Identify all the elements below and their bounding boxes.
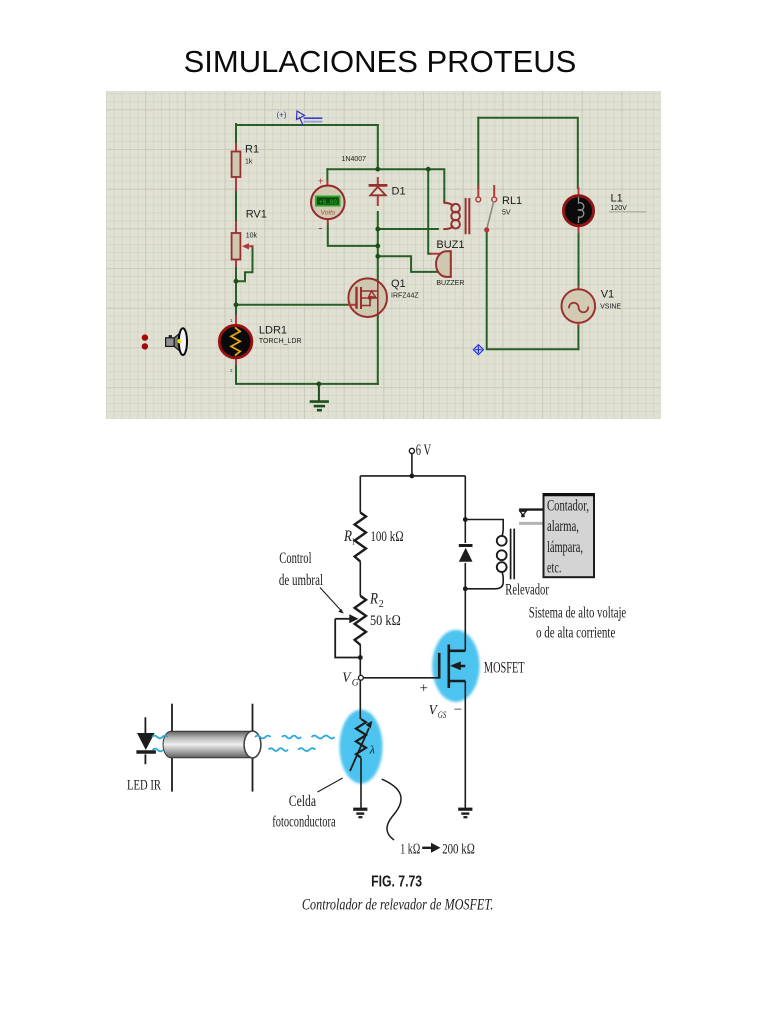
- svg-text:Contador,: Contador,: [547, 497, 589, 514]
- diode clamp: [459, 520, 473, 589]
- svg-text:etc.: etc.: [547, 560, 561, 577]
- svg-text:120V: 120V: [611, 205, 628, 212]
- resistor R1: [232, 144, 241, 190]
- highlight ellipse MOSFET: [432, 630, 479, 702]
- relay switch RL1: [476, 186, 497, 232]
- wire RL1 common to V1 bottom rail: [487, 230, 579, 349]
- LDR1 photoresistor: [219, 316, 252, 373]
- node wiper junction: [358, 655, 363, 660]
- svg-text:2: 2: [379, 599, 384, 610]
- light waves: [152, 736, 335, 752]
- ground MOSFET: [458, 809, 472, 817]
- resistor R1 zigzag: [355, 513, 366, 562]
- svg-text:1k: 1k: [245, 159, 253, 166]
- svg-text:Q1: Q1: [391, 278, 406, 290]
- wire voltmeter bottom lead: [328, 224, 378, 246]
- load box contador alarma lampara etc: [544, 494, 595, 577]
- wire relay coil top feed: [428, 169, 444, 201]
- svg-text:G: G: [352, 679, 359, 689]
- svg-text:o de alta corriente: o de alta corriente: [536, 625, 615, 642]
- svg-text:D1: D1: [392, 186, 406, 198]
- svg-text:V: V: [342, 670, 352, 686]
- wire between R1 and R2: [359, 562, 361, 596]
- wire D1 vertical below: [377, 212, 379, 256]
- potentiometer wiper arrow: [335, 618, 350, 620]
- svg-text:LDR1: LDR1: [259, 325, 287, 337]
- wire photocell to ground: [360, 758, 362, 808]
- svg-text:−: −: [454, 702, 462, 718]
- wire LDR to bottom rail: [236, 364, 378, 384]
- wire relay coil bottom rail: [378, 228, 438, 230]
- svg-text:VSINE: VSINE: [600, 303, 621, 310]
- photocell arrow: [350, 728, 369, 771]
- potentiometer RV1: [232, 222, 253, 266]
- wire left branch down to R1: [235, 124, 237, 144]
- svg-text:RV1: RV1: [246, 209, 267, 221]
- svg-text:IRFZ44Z: IRFZ44Z: [391, 292, 419, 299]
- svg-text:FIG. 7.73: FIG. 7.73: [371, 873, 422, 890]
- annotation speaker icon: [166, 328, 187, 355]
- wire Q1 drain up: [377, 256, 379, 281]
- annotation red dots: [142, 334, 148, 340]
- wire L1 to V1: [578, 230, 580, 287]
- wire relay to MOSFET drain: [464, 589, 466, 651]
- diode D1: [370, 178, 386, 205]
- svg-text:-: -: [318, 220, 322, 235]
- node supply junction: [410, 474, 415, 479]
- leader line celda: [318, 778, 343, 792]
- ground photocell: [353, 809, 367, 817]
- svg-text:LED IR: LED IR: [127, 777, 161, 793]
- svg-text:+: +: [420, 680, 428, 696]
- svg-text:V1: V1: [601, 288, 614, 300]
- arrow range: [422, 847, 432, 849]
- contact switch to box: [519, 508, 543, 510]
- svg-text:fotoconductora: fotoconductora: [272, 814, 335, 831]
- svg-text:alarma,: alarma,: [547, 518, 579, 535]
- svg-text:lámpara,: lámpara,: [547, 539, 583, 556]
- wire gate: [363, 677, 439, 679]
- svg-text:GS: GS: [438, 711, 447, 721]
- mosfet Q1: [348, 278, 387, 317]
- svg-text:MOSFET: MOSFET: [484, 659, 525, 676]
- svg-text:1: 1: [352, 537, 355, 547]
- svg-text:+: +: [318, 176, 324, 188]
- wire top rail: [360, 475, 465, 477]
- page title: [0, 46, 764, 77]
- lamp L1: [564, 188, 594, 232]
- svg-text:(+): (+): [277, 111, 287, 120]
- photocell zigzag: [356, 719, 366, 758]
- wire gate from RV1 to Q1: [236, 304, 349, 306]
- wire Q1 source down: [377, 314, 379, 384]
- buzzer BUZ1: [431, 251, 451, 277]
- wire RL1 left vertical: [477, 118, 479, 188]
- aperture bar left: [171, 704, 173, 792]
- voltage probe marker: [277, 111, 322, 126]
- junction dots: [234, 167, 431, 386]
- tube cylinder: [163, 731, 261, 758]
- origin marker diamond: [473, 345, 483, 355]
- svg-text:50 kΩ: 50 kΩ: [370, 613, 401, 629]
- wire RV1 to LDR: [235, 266, 237, 316]
- squiggle pointer to resistance range: [382, 779, 401, 840]
- node relay top junction: [463, 517, 468, 522]
- relay coil: [465, 520, 514, 589]
- svg-text:200 kΩ: 200 kΩ: [442, 842, 475, 858]
- svg-text:BUZ1: BUZ1: [436, 239, 464, 251]
- wire buzzer top feed: [428, 169, 431, 254]
- wire R1 to RV1: [235, 188, 237, 222]
- svg-text:R: R: [369, 591, 378, 608]
- wire top-left rail: [236, 124, 378, 126]
- wire right branch upper: [464, 476, 466, 520]
- svg-text:Control: Control: [279, 550, 311, 567]
- leader arrow to wiper: [320, 588, 342, 612]
- svg-text:1 kΩ: 1 kΩ: [400, 842, 420, 858]
- MOSFET arrow: [450, 661, 461, 670]
- wire top-right rail: [478, 118, 578, 188]
- wire RV1 wiper loop: [236, 246, 253, 281]
- wire buzzer bottom feed: [378, 256, 439, 272]
- highlight ellipse photocell: [340, 710, 383, 784]
- svg-text:10k: 10k: [246, 233, 258, 240]
- svg-text:RL1: RL1: [502, 195, 522, 207]
- wire VG down to photocell: [359, 680, 361, 719]
- wire left branch upper: [359, 476, 361, 513]
- wire MOSFET source to ground: [464, 681, 466, 808]
- aperture bar right: [252, 704, 254, 792]
- svg-text:L1: L1: [611, 193, 623, 205]
- wire D1 row horizontal: [327, 168, 428, 170]
- ground: [311, 384, 328, 410]
- voltmeter: [311, 176, 345, 236]
- svg-text:1N4007: 1N4007: [342, 156, 367, 163]
- supply terminal 6V: [409, 448, 414, 453]
- proteus schematic grid background: [106, 91, 661, 419]
- resistor R2 zigzag: [355, 596, 366, 645]
- wiper feedback bracket: [335, 619, 360, 658]
- node relay bottom junction: [463, 586, 468, 591]
- wire R2 to VG: [359, 645, 361, 676]
- wire right branch down to D1 row: [377, 125, 379, 169]
- svg-text:Relevador: Relevador: [505, 582, 549, 599]
- svg-text:6 V: 6 V: [416, 442, 432, 459]
- wire V1 bottom: [577, 326, 579, 349]
- svg-text:+0.00: +0.00: [319, 199, 337, 206]
- svg-text:de umbral: de umbral: [279, 572, 323, 589]
- svg-text:λ: λ: [369, 743, 375, 757]
- svg-text:Sistema de alto voltaje: Sistema de alto voltaje: [529, 604, 626, 621]
- svg-text:Celda: Celda: [289, 793, 316, 810]
- node VG terminal: [359, 675, 364, 680]
- wire supply to rail: [411, 454, 413, 476]
- source V1: [562, 287, 596, 326]
- LED IR symbol: [136, 717, 156, 764]
- svg-text:TORCH_LDR: TORCH_LDR: [259, 338, 302, 345]
- svg-text:5V: 5V: [502, 210, 511, 217]
- svg-text:R1: R1: [245, 144, 259, 156]
- MOSFET symbol: [439, 645, 465, 689]
- svg-text:Volts: Volts: [321, 210, 336, 217]
- relay coil RL1: [444, 199, 469, 233]
- svg-text:Controlador de relevador de MO: Controlador de relevador de MOSFET.: [302, 897, 493, 914]
- svg-text:100 kΩ: 100 kΩ: [370, 529, 403, 545]
- wire voltmeter top lead: [326, 169, 328, 181]
- svg-text:2: 2: [230, 368, 233, 373]
- svg-text:1: 1: [230, 318, 233, 323]
- svg-text:BUZZER: BUZZER: [436, 280, 464, 287]
